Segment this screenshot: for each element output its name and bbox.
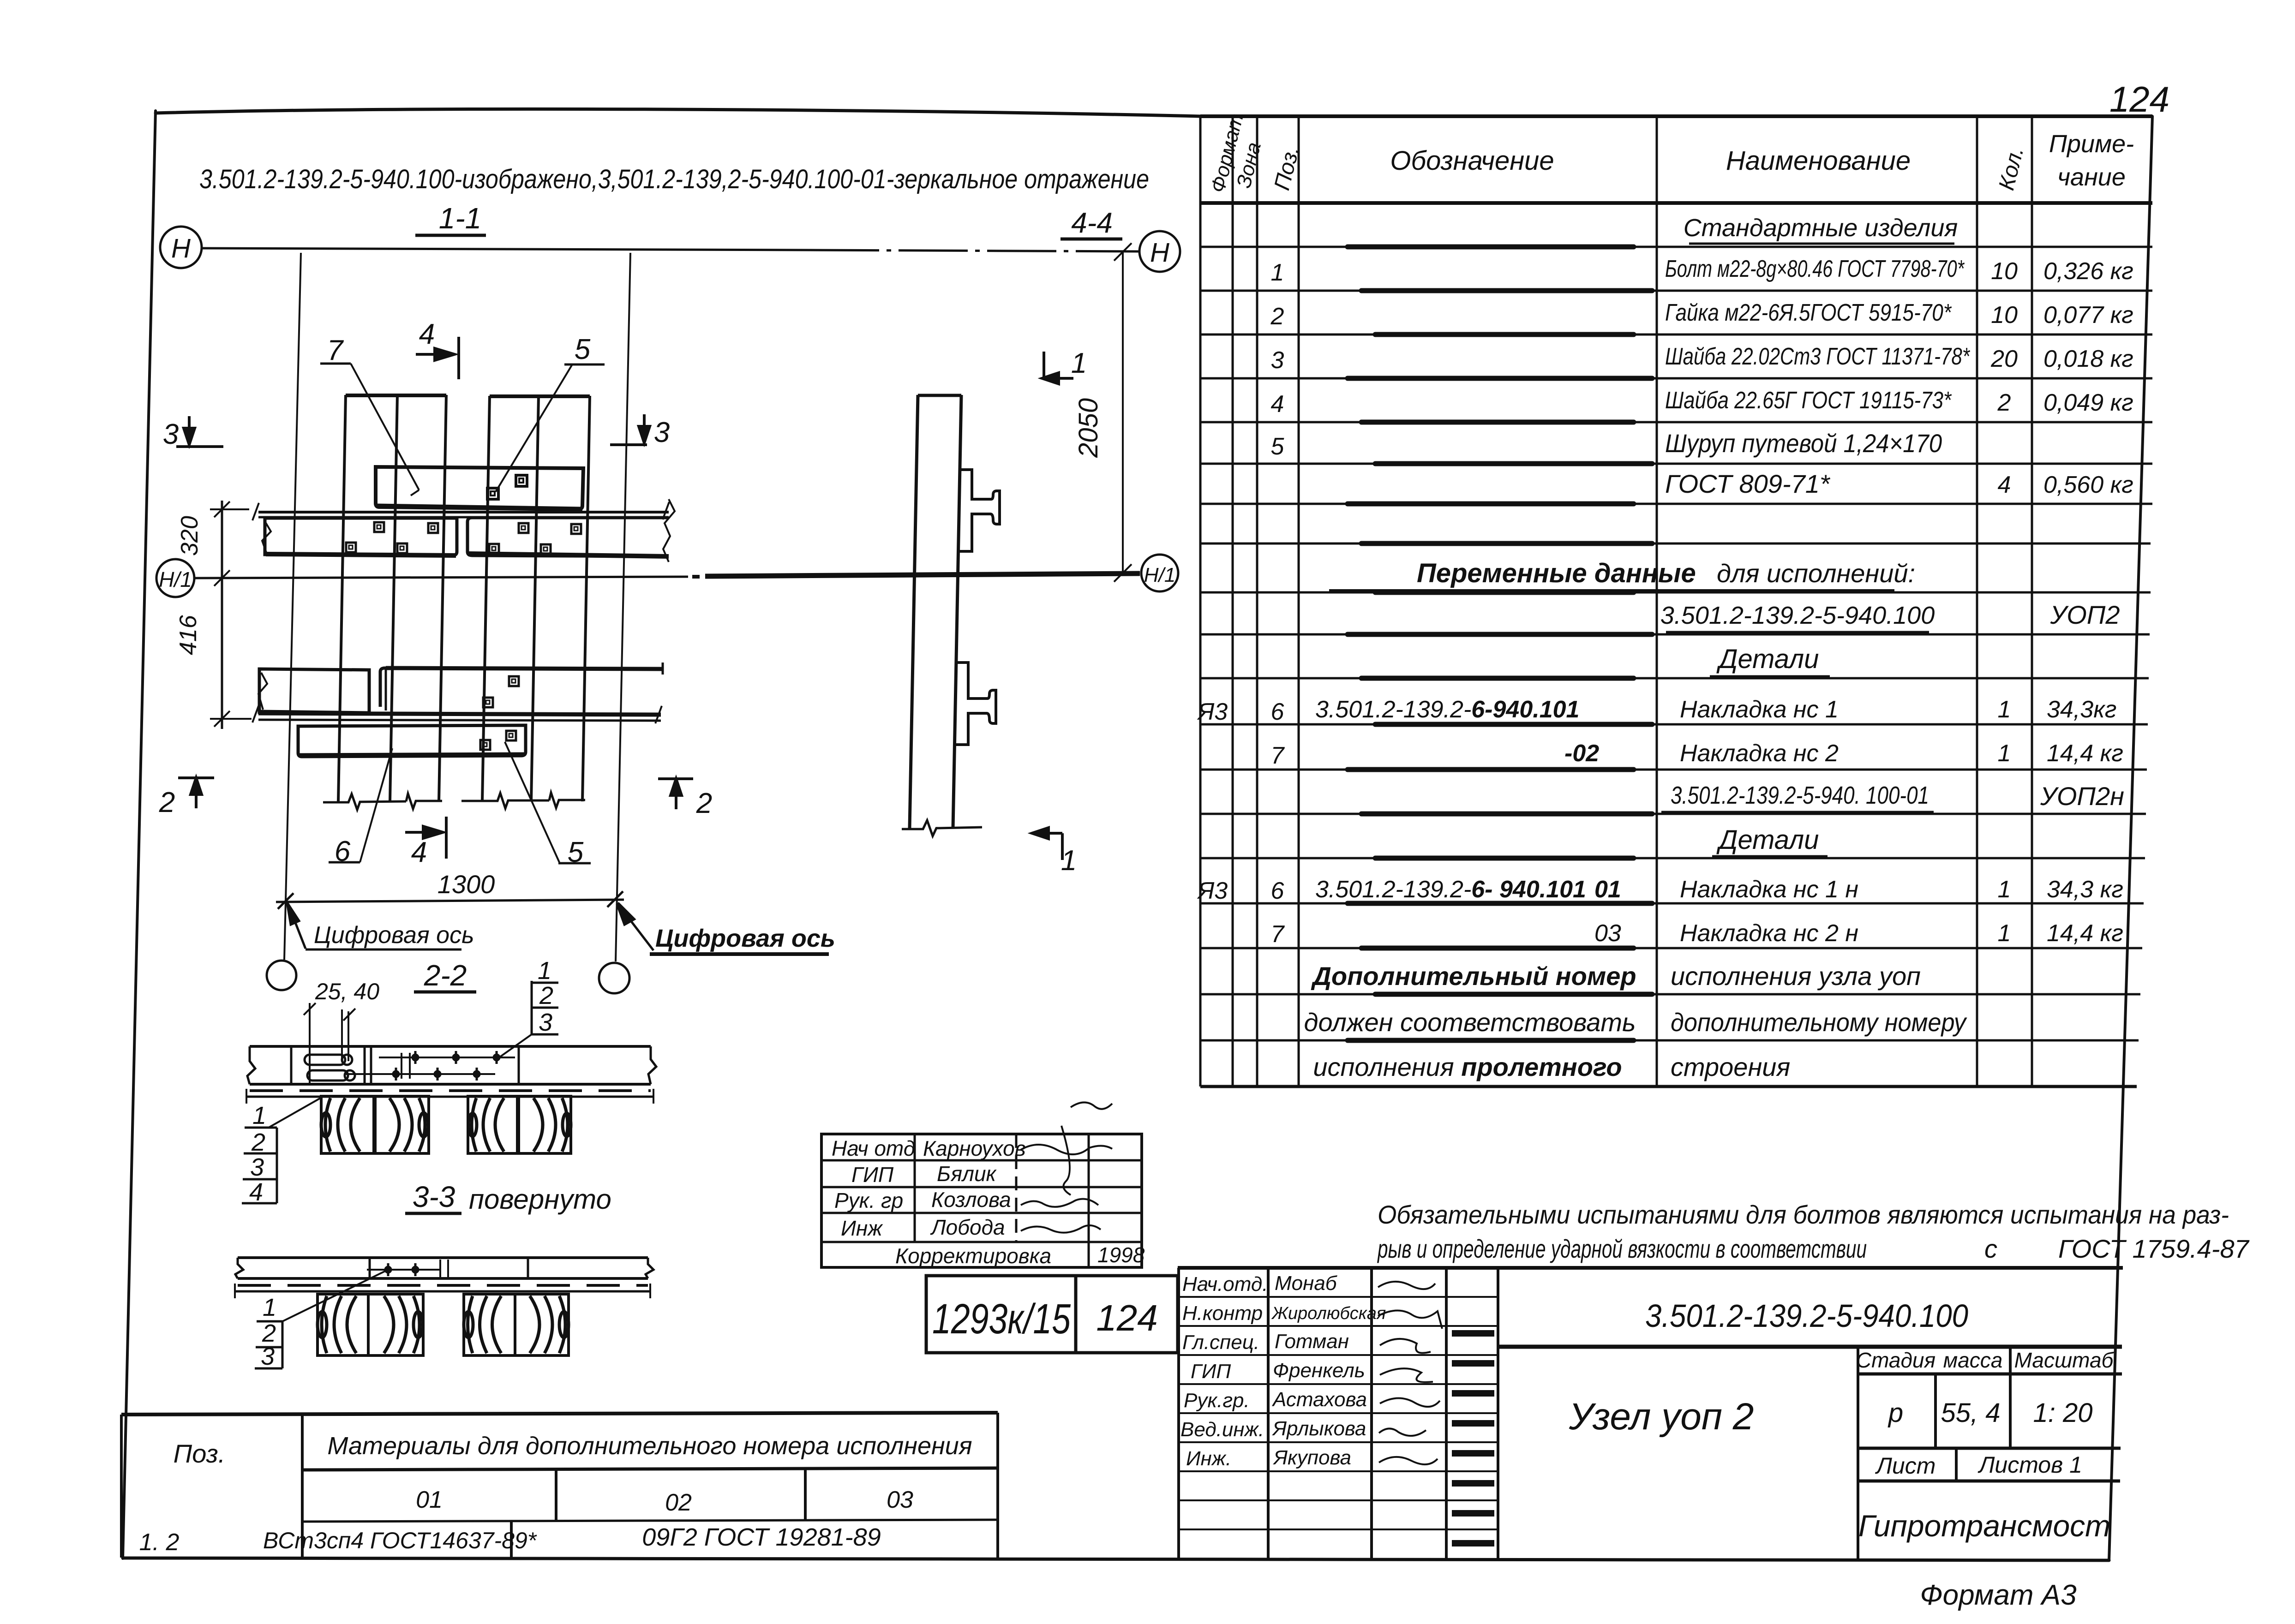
svg-text:Наименование: Наименование xyxy=(1726,146,1911,176)
view 1-1 beam A web lines xyxy=(338,395,446,801)
slotted hole 1 xyxy=(305,1055,352,1065)
svg-text:7: 7 xyxy=(1271,742,1285,769)
svg-text:Узел уоп 2: Узел уоп 2 xyxy=(1569,1396,1754,1438)
svg-text:Накладка нс 1 н: Накладка нс 1 н xyxy=(1680,876,1858,903)
svg-text:0,560 кг: 0,560 кг xyxy=(2043,472,2133,498)
svg-text:Формат А3: Формат А3 xyxy=(1920,1579,2076,1611)
view 1-1 beam B web lines xyxy=(482,396,590,801)
svg-text:Переменные данные: Переменные данные xyxy=(1417,558,1696,588)
svg-text:Рук.гр.: Рук.гр. xyxy=(1184,1389,1250,1412)
svg-text:34,3кг: 34,3кг xyxy=(2047,696,2116,723)
svg-text:должен соответствовать: должен соответствовать xyxy=(1304,1008,1636,1037)
svg-text:1: 1 xyxy=(263,1294,276,1321)
callout stack 1 2 3 right xyxy=(538,957,553,1036)
svg-text:Жиролюбская: Жиролюбская xyxy=(1271,1304,1386,1323)
dimension 320/416 vertical line xyxy=(210,501,252,729)
svg-text:исполнения узла уоп: исполнения узла уоп xyxy=(1671,961,1921,991)
svg-text:Н/1: Н/1 xyxy=(1144,564,1175,586)
svg-text:2: 2 xyxy=(1270,303,1284,330)
slotted hole 2 xyxy=(307,1070,355,1081)
sheet frame left border xyxy=(123,111,156,1558)
sheet frame bottom border xyxy=(123,1558,2109,1560)
svg-text:Нач.отд.: Нач.отд. xyxy=(1182,1273,1268,1296)
svg-text:Шуруп путевой 1,24×170: Шуруп путевой 1,24×170 xyxy=(1665,429,1942,458)
svg-text:Ярлыкова: Ярлыкова xyxy=(1272,1417,1366,1440)
svg-text:Монаб: Монаб xyxy=(1275,1272,1338,1295)
svg-text:2050: 2050 xyxy=(1073,398,1103,458)
svg-text:0,077 кг: 0,077 кг xyxy=(2043,302,2133,328)
svg-text:25, 40: 25, 40 xyxy=(315,979,379,1004)
svg-text:Шайба 22.65Г ГОСТ 19115-73*: Шайба 22.65Г ГОСТ 19115-73* xyxy=(1665,387,1952,414)
dimension 2050 xyxy=(1114,243,1132,582)
bolt axis row lower xyxy=(345,1068,495,1081)
svg-text:4-4: 4-4 xyxy=(1071,207,1113,239)
svg-text:3.501.2-139.2-5-940.100-изобра: 3.501.2-139.2-5-940.100-изображено,3,501… xyxy=(199,164,1149,194)
view 3-3 plate band xyxy=(235,1258,653,1298)
inventory number box 1293К/15 124 xyxy=(926,1276,1178,1353)
svg-text:исполнения пролетного: исполнения пролетного xyxy=(1313,1052,1622,1081)
svg-text:03: 03 xyxy=(887,1487,913,1513)
svg-text:09Г2 ГОСТ 19281-89: 09Г2 ГОСТ 19281-89 xyxy=(642,1523,881,1551)
svg-text:Готман: Готман xyxy=(1275,1330,1349,1353)
svg-text:3-3: 3-3 xyxy=(413,1180,455,1213)
svg-text:3: 3 xyxy=(1271,347,1284,374)
svg-text:01: 01 xyxy=(416,1487,443,1513)
svg-text:3: 3 xyxy=(539,1009,552,1036)
svg-text:Якупова: Якупова xyxy=(1273,1446,1351,1469)
svg-text:ГОСТ 809-71*: ГОСТ 809-71* xyxy=(1665,469,1831,498)
svg-text:Лист: Лист xyxy=(1875,1453,1936,1479)
svg-text:2: 2 xyxy=(539,982,553,1009)
svg-text:ГОСТ 1759.4-87: ГОСТ 1759.4-87 xyxy=(2058,1234,2250,1263)
svg-text:Материалы для дополнительног: Материалы для дополнительного номера исп… xyxy=(327,1432,972,1460)
svg-text:20: 20 xyxy=(1990,346,2018,372)
svg-text:ВСт3сп4 ГОСТ14637-89*: ВСт3сп4 ГОСТ14637-89* xyxy=(263,1528,537,1553)
svg-text:34,3 кг: 34,3 кг xyxy=(2047,876,2123,903)
svg-text:Обязательными испытаниями дл: Обязательными испытаниями для болтов явл… xyxy=(1378,1200,2229,1229)
svg-text:Стадия: Стадия xyxy=(1856,1348,1935,1372)
svg-text:-02: -02 xyxy=(1564,740,1599,767)
svg-text:Рук. гр: Рук. гр xyxy=(834,1188,903,1212)
svg-text:2-2: 2-2 xyxy=(424,959,467,992)
svg-text:1300: 1300 xyxy=(437,870,495,899)
parts table rows text xyxy=(1197,214,2133,1081)
svg-text:Н/1: Н/1 xyxy=(159,567,192,591)
svg-text:УОП2: УОП2 xyxy=(2049,600,2120,629)
svg-text:Я3: Я3 xyxy=(1197,699,1228,725)
bolts in upper left splice plate xyxy=(346,522,438,553)
svg-text:1: 1 xyxy=(538,957,551,985)
svg-text:Накладка нс 1: Накладка нс 1 xyxy=(1680,696,1839,723)
svg-text:р: р xyxy=(1888,1398,1903,1428)
svg-text:Болт м22-8g×80.46 ГОСТ 7798-70: Болт м22-8g×80.46 ГОСТ 7798-70* xyxy=(1665,256,1965,282)
wood sleeper 3-3 block 4 xyxy=(515,1294,569,1355)
svg-text:Козлова: Козлова xyxy=(931,1188,1011,1212)
digital axis circle left xyxy=(267,961,296,990)
title block main stamp grid xyxy=(1178,1268,2123,1560)
svg-text:4: 4 xyxy=(419,318,435,350)
wood sleeper 3-3 block 2 xyxy=(368,1294,423,1355)
svg-text:Цифровая ось: Цифровая ось xyxy=(314,922,474,949)
svg-text:Инж.: Инж. xyxy=(1186,1447,1231,1470)
svg-text:3.501.2-139.2-5-940.100: 3.501.2-139.2-5-940.100 xyxy=(1660,602,1935,629)
svg-text:1: 20: 1: 20 xyxy=(2033,1398,2093,1428)
bolts in lower right plate xyxy=(483,676,519,707)
svg-text:Гайка м22-6Я.5ГОСТ 5915-70*: Гайка м22-6Я.5ГОСТ 5915-70* xyxy=(1665,299,1952,326)
svg-text:3: 3 xyxy=(250,1153,264,1181)
correction stamp signatures xyxy=(1021,1102,1112,1232)
svg-text:3: 3 xyxy=(654,417,670,448)
sheet frame right border xyxy=(2109,116,2152,1560)
svg-text:3.501.2-139.2-6-940.101: 3.501.2-139.2-6-940.101 xyxy=(1315,696,1579,723)
svg-text:ГИП: ГИП xyxy=(851,1163,894,1187)
svg-text:01: 01 xyxy=(1594,876,1621,903)
bolts in upper right splice plate xyxy=(489,523,581,554)
svg-text:1: 1 xyxy=(1998,876,2011,903)
svg-text:Приме-: Приме- xyxy=(2049,130,2134,158)
view 1-1 top flange lines xyxy=(252,502,669,520)
svg-text:3.501.2-139.2-6- 940.101: 3.501.2-139.2-6- 940.101 xyxy=(1315,876,1586,903)
svg-text:Н: Н xyxy=(1150,238,1169,268)
dimension 1300 xyxy=(276,891,624,909)
svg-text:Вед.инж.: Вед.инж. xyxy=(1180,1418,1264,1441)
svg-text:4: 4 xyxy=(1271,391,1284,418)
svg-text:320: 320 xyxy=(176,516,203,556)
svg-text:1: 1 xyxy=(1998,740,2011,767)
callout stack 1 2 3 (3-3) xyxy=(261,1294,276,1370)
svg-text:1: 1 xyxy=(1998,920,2011,947)
svg-text:4: 4 xyxy=(249,1178,263,1206)
svg-text:2: 2 xyxy=(1997,389,2011,416)
view 1-1 rail edge line left xyxy=(284,253,301,960)
materials table grid xyxy=(121,1413,998,1558)
svg-text:Инж: Инж xyxy=(841,1216,883,1240)
svg-text:4: 4 xyxy=(1998,472,2011,498)
svg-text:1: 1 xyxy=(1998,696,2011,723)
svg-text:0,018 кг: 0,018 кг xyxy=(2043,346,2133,372)
bolts in bottom cover plate xyxy=(480,731,516,750)
svg-text:Шайба 22.02Ст3 ГОСТ 11371-78*: Шайба 22.02Ст3 ГОСТ 11371-78* xyxy=(1665,343,1970,370)
svg-text:Нач отд: Нач отд xyxy=(832,1136,915,1160)
svg-text:чание: чание xyxy=(2057,163,2126,191)
bolt in top cover plate 2 xyxy=(516,475,527,486)
view 1-1 upper left splice plate xyxy=(262,518,457,555)
svg-text:124: 124 xyxy=(2109,79,2169,119)
view 4-4 upper T bracket xyxy=(959,470,1000,551)
svg-text:Цифровая ось: Цифровая ось xyxy=(655,925,835,952)
axis line H xyxy=(202,248,1139,251)
svg-text:ГИП: ГИП xyxy=(1191,1360,1231,1383)
svg-text:03: 03 xyxy=(1594,920,1621,947)
svg-text:Детали: Детали xyxy=(1716,825,1819,855)
title block stage/mass/scale xyxy=(1856,1348,2115,1479)
title block signatures xyxy=(1378,1282,1442,1464)
svg-text:6: 6 xyxy=(1271,699,1284,725)
correction stamp texts xyxy=(832,1136,1145,1268)
view 1-1 top cover plate pos.7 xyxy=(376,467,583,509)
svg-text:Н.контр: Н.контр xyxy=(1182,1302,1263,1325)
svg-text:02: 02 xyxy=(665,1489,692,1516)
bolt axis row 3-3 xyxy=(367,1263,441,1276)
svg-text:6: 6 xyxy=(1271,878,1284,904)
wood sleeper 2-2 block 4 xyxy=(519,1096,571,1153)
svg-text:Лобода: Лобода xyxy=(930,1215,1005,1239)
svg-text:10: 10 xyxy=(1991,258,2018,285)
svg-text:1998: 1998 xyxy=(1097,1243,1145,1267)
axis circle H left xyxy=(160,227,202,268)
sheet frame top border xyxy=(156,109,1200,116)
svg-text:10: 10 xyxy=(1991,302,2018,328)
svg-text:0,049 кг: 0,049 кг xyxy=(2043,389,2133,416)
svg-text:1293к/15: 1293к/15 xyxy=(932,1296,1071,1343)
view 1-1 lower right plate xyxy=(380,663,663,710)
view 4-4 column body xyxy=(910,395,961,828)
svg-text:14,4 кг: 14,4 кг xyxy=(2047,740,2123,767)
svg-text:14,4 кг: 14,4 кг xyxy=(2047,920,2123,947)
svg-text:строения: строения xyxy=(1671,1052,1790,1081)
bolt in top cover plate 1 xyxy=(487,488,498,499)
wood sleeper 3-3 block 3 xyxy=(464,1294,515,1355)
axis circle H/1 right xyxy=(1141,555,1178,591)
svg-text:7: 7 xyxy=(1271,921,1285,948)
svg-text:1: 1 xyxy=(1271,259,1284,286)
svg-text:Листов 1: Листов 1 xyxy=(1977,1452,2082,1478)
wood sleeper 2-2 block 3 xyxy=(468,1096,517,1153)
svg-text:55, 4: 55, 4 xyxy=(1941,1398,2001,1428)
svg-text:рыв и определение ударной вязк: рыв и определение ударной вязкости в соо… xyxy=(1377,1234,1867,1263)
wood sleeper 2-2 block 1 xyxy=(321,1096,374,1153)
view 1-1 break line bottom xyxy=(323,793,585,810)
svg-text:1. 2: 1. 2 xyxy=(139,1529,180,1556)
svg-text:Н: Н xyxy=(171,233,191,263)
svg-text:УОП2н: УОП2н xyxy=(2040,782,2124,811)
svg-text:3.501.2-139.2-5-940. 100-01: 3.501.2-139.2-5-940. 100-01 xyxy=(1671,782,1929,809)
view 1-1 lower left plate xyxy=(258,669,369,713)
svg-text:Обозначение: Обозначение xyxy=(1390,146,1554,176)
svg-text:1: 1 xyxy=(252,1102,266,1129)
svg-text:0,326 кг: 0,326 кг xyxy=(2043,258,2133,285)
title block roles and names xyxy=(1180,1272,1386,1470)
svg-text:Гл.спец.: Гл.спец. xyxy=(1182,1331,1259,1354)
svg-text:Бялик: Бялик xyxy=(937,1162,997,1186)
axis circle H/1 left xyxy=(156,559,194,597)
svg-text:2: 2 xyxy=(696,788,712,819)
view 4-4 column break mark xyxy=(902,820,982,836)
svg-text:Френкель: Френкель xyxy=(1273,1359,1365,1382)
svg-text:Детали: Детали xyxy=(1716,644,1819,674)
svg-text:5: 5 xyxy=(575,334,591,365)
svg-text:2: 2 xyxy=(251,1128,265,1156)
axis circle H right xyxy=(1139,231,1180,272)
view 1-1 bottom cover plate pos.6 xyxy=(298,725,526,757)
svg-text:с: с xyxy=(1984,1234,1997,1263)
svg-text:повернуто: повернуто xyxy=(469,1184,611,1215)
table row line ink smears (scan artifact) xyxy=(1348,247,1652,1040)
view 1-1 bottom flange lines xyxy=(252,705,662,723)
view 1-1 upper right splice plate xyxy=(467,499,675,562)
svg-text:для исполнений:: для исполнений: xyxy=(1717,559,1915,588)
svg-text:масса: масса xyxy=(1943,1348,2003,1372)
svg-text:Дополнительный номер: Дополнительный номер xyxy=(1311,961,1636,991)
correction stamp grid xyxy=(821,1134,1142,1267)
title block date dashes xyxy=(1452,1333,1494,1543)
view 4-4 lower T bracket xyxy=(955,663,996,745)
svg-text:Я3: Я3 xyxy=(1197,878,1228,904)
wood sleeper 3-3 block 1 xyxy=(318,1294,368,1355)
svg-text:124: 124 xyxy=(1096,1297,1157,1338)
svg-text:5: 5 xyxy=(1271,433,1285,460)
svg-text:416: 416 xyxy=(175,615,202,655)
svg-text:1: 1 xyxy=(1071,347,1087,379)
svg-text:7: 7 xyxy=(327,334,344,366)
svg-text:Корректировка: Корректировка xyxy=(895,1244,1051,1268)
parts table header text xyxy=(1206,111,2134,195)
svg-text:4: 4 xyxy=(411,836,427,868)
svg-text:Накладка нс 2: Накладка нс 2 xyxy=(1680,740,1839,767)
svg-text:Стандартные изделия: Стандартные изделия xyxy=(1684,214,1958,242)
svg-text:Накладка нс 2 н: Накладка нс 2 н xyxy=(1680,920,1858,947)
svg-text:3.501.2-139.2-5-940.100: 3.501.2-139.2-5-940.100 xyxy=(1645,1298,1968,1334)
svg-text:Поз.: Поз. xyxy=(174,1439,226,1468)
wood sleeper 2-2 block 2 xyxy=(375,1096,429,1153)
view 2-2 plate band xyxy=(246,1046,656,1104)
digital axis circle right xyxy=(599,963,629,993)
svg-text:дополнительному номеру: дополнительному номеру xyxy=(1671,1008,1967,1037)
svg-text:Астахова: Астахова xyxy=(1271,1388,1367,1411)
svg-text:2: 2 xyxy=(159,787,175,818)
svg-text:1-1: 1-1 xyxy=(439,202,482,235)
parts table grid xyxy=(1200,116,2152,1087)
callout stack 1 2 3 4 left xyxy=(249,1102,266,1206)
axis line H/1 xyxy=(194,573,1140,578)
svg-text:Гипротрансмост: Гипротрансмост xyxy=(1858,1509,2110,1543)
svg-text:Масштаб: Масштаб xyxy=(2014,1348,2115,1372)
svg-text:Карноухов: Карноухов xyxy=(923,1136,1026,1160)
bolt axis row upper xyxy=(379,1051,515,1064)
view 1-1 rail edge line right xyxy=(616,253,630,961)
